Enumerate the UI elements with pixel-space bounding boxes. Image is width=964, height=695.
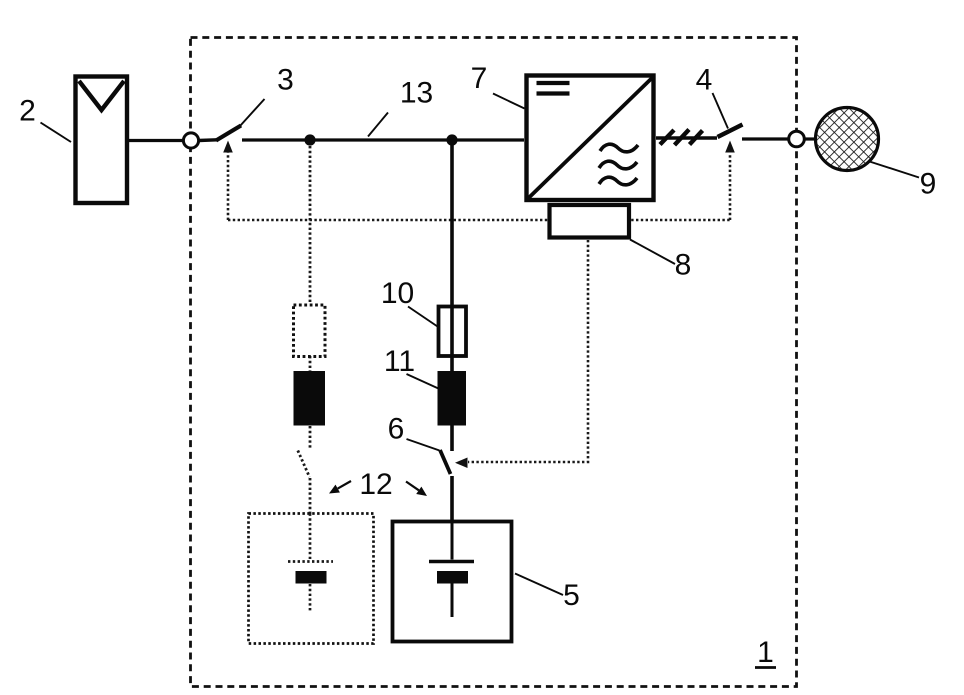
svg-text:12: 12	[359, 468, 392, 501]
svg-text:7: 7	[471, 62, 488, 95]
svg-text:5: 5	[563, 579, 580, 612]
svg-text:6: 6	[388, 413, 405, 446]
svg-text:4: 4	[696, 64, 713, 97]
svg-text:3: 3	[277, 64, 294, 97]
svg-text:9: 9	[920, 168, 937, 201]
svg-text:8: 8	[675, 249, 692, 282]
svg-text:2: 2	[19, 95, 36, 128]
svg-text:13: 13	[400, 77, 433, 110]
svg-text:10: 10	[381, 277, 414, 310]
svg-text:11: 11	[384, 345, 415, 378]
svg-text:1: 1	[757, 636, 774, 669]
